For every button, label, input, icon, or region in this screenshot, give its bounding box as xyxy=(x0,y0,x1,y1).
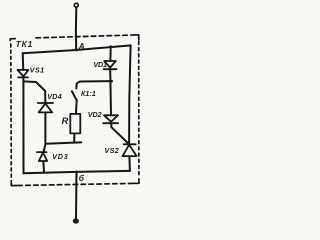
svg-text:VS2: VS2 xyxy=(104,146,119,155)
contact K1:1 blade xyxy=(72,91,77,100)
wire: VD1 to VD2 xyxy=(109,70,112,116)
svg-text:К1:1: К1:1 xyxy=(81,91,96,98)
svg-text:ТК1: ТК1 xyxy=(16,39,34,49)
svg-text:VD1: VD1 xyxy=(93,60,107,69)
dashed enclosure box TK1: top edge xyxy=(10,35,139,186)
wire: VD3 above xyxy=(44,144,46,152)
wire: VD2 diagonal down to VS2 top xyxy=(111,124,129,144)
svg-text:VD3: VD3 xyxy=(52,152,68,161)
svg-text:VD2: VD2 xyxy=(88,110,102,119)
diode VD3 xyxy=(37,152,47,161)
terminal B dot (bottom, filled) xyxy=(73,218,79,223)
svg-text:VD4: VD4 xyxy=(47,92,62,101)
dashed box: bottom edge xyxy=(18,183,133,185)
svg-text:А: А xyxy=(78,42,85,51)
wire: branch VS1 cathode to VD4 xyxy=(24,81,46,102)
svg-text:R: R xyxy=(62,116,69,126)
node B junction dot xyxy=(75,171,78,174)
diode VD1 xyxy=(104,61,117,69)
wire: node B down to bottom terminal xyxy=(75,172,78,219)
wire: branch to contact K1:1 xyxy=(76,81,112,88)
dashed box: left edge xyxy=(10,44,13,179)
node A junction dot xyxy=(75,48,78,51)
diode VD2 xyxy=(103,115,118,123)
junction dot K branch xyxy=(110,80,113,83)
resistor R xyxy=(70,114,80,133)
wire: VD4 anode down to junction xyxy=(44,113,46,144)
diode VD4 xyxy=(38,103,53,112)
wire: bottom connector junction to R bottom xyxy=(45,142,81,143)
svg-text:б: б xyxy=(79,173,85,183)
thyristor VS2 xyxy=(123,144,137,156)
terminal A circle (top) xyxy=(74,3,78,7)
wire: contact to resistor xyxy=(75,100,78,113)
thyristor VS1 xyxy=(18,70,29,78)
wire: top rail of inner box xyxy=(23,45,131,53)
wire: VS2 down to bottom rail xyxy=(128,156,131,171)
wire: terminal A down to top rail xyxy=(75,7,77,50)
wire: resistor bottom xyxy=(73,134,75,143)
wire: top rail to VD1 xyxy=(109,46,111,60)
wire: right edge from top rail down xyxy=(129,45,131,143)
wire: VD3 anode down to bottom rail xyxy=(42,161,45,173)
dashed box: right edge xyxy=(138,42,140,178)
wire: bottom rail of inner box xyxy=(23,171,130,173)
svg-text:VS1: VS1 xyxy=(30,65,45,74)
wire: VS1 cathode down to bottom rail xyxy=(22,78,24,174)
wire: left edge down to VS1 xyxy=(22,53,25,70)
